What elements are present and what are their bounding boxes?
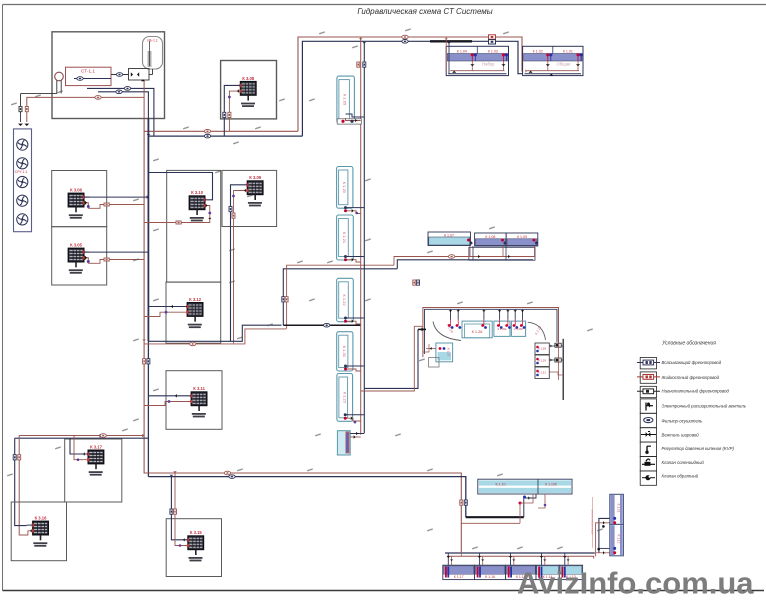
room 111 box <box>166 519 221 577</box>
ceiling group 1 <box>446 46 508 75</box>
evaporator К 3.12 <box>186 297 203 328</box>
vessel ИБ-1.1 <box>143 37 163 70</box>
fancoil К 1.07 <box>428 232 471 246</box>
svg-text:К 1.04: К 1.04 <box>457 50 467 54</box>
svg-text:К 1.10: К 1.10 <box>495 482 505 486</box>
svg-text:Нагнетательный фреонопровод: Нагнетательный фреонопровод <box>662 389 730 394</box>
wire К 1.05 out <box>337 114 364 124</box>
fancoil stack К 1.31 <box>535 367 549 379</box>
wire main A suction <box>148 135 302 137</box>
evaporator К 3.05 pipes <box>84 252 90 263</box>
filter-drier F1 <box>402 35 408 39</box>
svg-text:К 3.10: К 3.10 <box>191 190 204 195</box>
bottom units row <box>443 565 583 579</box>
wire group1 feed <box>445 37 451 74</box>
trunk suction <box>147 119 149 477</box>
fancoil К 1.26 <box>462 321 492 338</box>
svg-text:К 1.21: К 1.21 <box>342 232 347 244</box>
wire top main suction thick <box>430 40 472 42</box>
fancoil К 1.20 <box>337 167 353 209</box>
svg-text:Гидравлическая схема СТ Систем: Гидравлическая схема СТ Системы <box>357 7 492 16</box>
tank СТ-1.1 <box>66 67 112 85</box>
wire К 1.30 out <box>344 365 364 372</box>
wire valve box to vessel <box>149 69 153 75</box>
evaporator К 3.17 <box>87 444 104 475</box>
wire top main suction <box>302 41 523 136</box>
box near К 1.27 <box>429 358 440 367</box>
check valve КО 1 <box>555 343 561 347</box>
valve V1 <box>19 107 22 112</box>
svg-text:К 1.20: К 1.20 <box>342 182 347 194</box>
svg-text:КО: КО <box>556 359 559 362</box>
wire К 3.17 <box>70 436 88 462</box>
wire К 3.16 <box>23 525 33 535</box>
check valve КО 2 <box>555 358 561 362</box>
room 102 box <box>52 227 107 285</box>
trunk junction 2 <box>142 340 146 342</box>
wire К 3.12 branch <box>144 305 187 317</box>
evaporator К 3.09 <box>246 175 263 206</box>
evaporator К 3.06 <box>68 188 85 219</box>
svg-text:СРУ-1.1: СРУ-1.1 <box>15 170 28 174</box>
wire top main liquid <box>298 37 527 131</box>
wire main B <box>15 434 149 439</box>
wire К 3.05 branch <box>88 252 148 263</box>
svg-text:К 1.29: К 1.29 <box>538 359 546 363</box>
wire К 1.10 under <box>461 494 546 523</box>
svg-text:AvizInfo.com.ua: AvizInfo.com.ua <box>517 566 754 600</box>
machine room box <box>52 32 165 119</box>
fancoil К 1.21 <box>337 215 354 260</box>
wire К 1.22 out <box>344 317 364 325</box>
ceiling group 2 <box>523 46 583 75</box>
condenser СРУ-1.1 <box>14 129 32 232</box>
wire main C <box>144 471 466 552</box>
label К 1.24 diag <box>446 323 454 333</box>
svg-text:К 1.08: К 1.08 <box>485 235 495 239</box>
evaporator К 3.05 <box>68 243 85 274</box>
fancoil К 1.27 <box>436 343 453 362</box>
dots mid group <box>467 239 538 245</box>
fancoil К 1.08 <box>475 233 507 246</box>
svg-text:К 3.05: К 3.05 <box>70 243 83 248</box>
svg-text:административный: административный <box>590 509 594 535</box>
evaporator К 3.08 <box>239 76 256 107</box>
room 106 box <box>166 282 221 343</box>
svg-text:К 3.11: К 3.11 <box>193 386 205 391</box>
wire dept red <box>591 497 593 548</box>
svg-text:К 1.28: К 1.28 <box>538 347 546 351</box>
fancoil КТ 1.1 <box>337 431 350 455</box>
wire bottom dist <box>445 552 595 558</box>
room 103 box <box>167 170 221 282</box>
pipe size labels <box>7 28 603 549</box>
room 104 box <box>222 170 277 226</box>
filter-drier F4 <box>204 134 210 138</box>
svg-text:К 1.01: К 1.01 <box>563 50 573 54</box>
legend texts <box>661 360 747 479</box>
wire К 1.21 out <box>344 255 364 262</box>
wire main B left drop <box>13 436 27 536</box>
legend title and symbols <box>637 341 716 486</box>
room 105 box <box>221 61 277 119</box>
wire mid black 325 <box>283 323 360 327</box>
fancoil stack К 1.29 <box>535 355 549 367</box>
room 107 box <box>166 371 222 430</box>
valve V2 <box>25 107 28 112</box>
evaporator К 3.15 <box>187 530 204 561</box>
filter-drier F2 <box>402 40 408 44</box>
component R2 <box>489 40 496 44</box>
svg-text:К 1.12: К 1.12 <box>616 535 620 544</box>
curved room outline <box>423 308 563 401</box>
watermark AvizInfo.com.ua <box>517 566 754 600</box>
wire to condenser red <box>27 97 52 122</box>
wire К 3.06 branch <box>88 195 148 208</box>
svg-text:К 3.17: К 3.17 <box>90 444 103 449</box>
svg-text:К 3.06: К 3.06 <box>70 188 83 193</box>
trunk junction 1 <box>146 134 150 136</box>
evaporator К 3.11 <box>190 386 207 417</box>
svg-text:К 1.07: К 1.07 <box>444 233 454 237</box>
evaporator К 3.16 <box>32 516 49 547</box>
group2 feed tri <box>525 69 553 75</box>
svg-text:КО: КО <box>556 344 559 347</box>
wire pump out <box>21 93 57 95</box>
title <box>357 7 492 16</box>
svg-text:Жидкостный фреонопровод: Жидкостный фреонопровод <box>661 375 720 380</box>
svg-text:Набор: Набор <box>482 61 495 66</box>
trunk valve S <box>147 359 150 364</box>
svg-text:Фильтр-осушитель: Фильтр-осушитель <box>662 419 704 424</box>
fancoil tower К 1.11 <box>610 494 624 524</box>
wire К 1.27 <box>423 344 436 352</box>
svg-text:К 1.10б: К 1.10б <box>545 482 557 486</box>
svg-text:Всасывающий фреонопровод: Всасывающий фреонопровод <box>662 360 722 365</box>
svg-text:Вентиль шаровой: Вентиль шаровой <box>662 432 700 437</box>
svg-text:К 1.11: К 1.11 <box>616 504 620 513</box>
wire to condenser dark <box>20 94 22 122</box>
wire mid step <box>394 257 423 269</box>
svg-text:Регулятор давления кипения (KV: Регулятор давления кипения (KVP) <box>662 446 735 451</box>
svg-text:К 1.03: К 1.03 <box>488 50 498 54</box>
room 108 box <box>65 439 122 502</box>
wire riser mid <box>282 265 398 329</box>
wire inside tank <box>74 77 111 81</box>
svg-text:ИБ-1.1: ИБ-1.1 <box>147 39 158 43</box>
fancoil К 1.05 <box>337 76 355 123</box>
wire main A liquid <box>144 130 298 132</box>
fancoil К 1.26а <box>494 321 510 336</box>
wire suction A <box>87 87 154 137</box>
wire КТ 1.1 in <box>350 432 364 439</box>
svg-text:К 3.15: К 3.15 <box>190 530 203 535</box>
svg-text:К 1.23: К 1.23 <box>534 325 542 335</box>
wire К 1.20 out <box>344 206 364 214</box>
fancoil К 1.09 <box>506 233 538 246</box>
svg-text:К 1.31: К 1.31 <box>538 371 546 375</box>
fancoil К 1.30 <box>337 332 353 371</box>
wire stack feeds <box>536 344 563 381</box>
svg-text:К 1.02: К 1.02 <box>533 50 543 54</box>
svg-text:К 1.17: К 1.17 <box>454 575 464 579</box>
label К 1.23 diag <box>534 325 542 335</box>
svg-text:Клапан обратный: Клапан обратный <box>662 474 699 479</box>
fancoil К 1.26б <box>511 321 525 336</box>
trunk valve L <box>143 359 146 364</box>
pump P1 <box>55 72 64 93</box>
mid group under box <box>469 247 535 260</box>
main C valves <box>460 500 468 505</box>
svg-text:К 3.16: К 3.16 <box>35 516 48 521</box>
wire mid run <box>0 0 1 1</box>
svg-text:К 1.23: К 1.23 <box>342 392 347 404</box>
svg-text:К 3.12: К 3.12 <box>189 297 202 302</box>
svg-text:К 1.22: К 1.22 <box>342 294 347 306</box>
curved room drops <box>448 309 526 329</box>
trunk liquid <box>144 119 146 474</box>
svg-text:СТ-1.1: СТ-1.1 <box>81 69 95 74</box>
fancoil tower К 1.12 <box>610 524 624 555</box>
wire К 3.09 drop <box>229 185 247 343</box>
tower riser <box>596 518 610 556</box>
cassette riser <box>359 37 366 435</box>
wire suction B <box>98 90 148 119</box>
curved room arc left <box>433 322 461 341</box>
svg-text:Общая: Общая <box>557 61 572 66</box>
svg-text:К 1.09: К 1.09 <box>517 235 527 239</box>
room 109 box <box>11 502 66 561</box>
fancoil К 1.23 <box>337 374 353 422</box>
curved room entry <box>414 326 426 331</box>
wire branch 341 <box>144 325 286 346</box>
room 101 box <box>52 171 107 227</box>
riser valves <box>357 62 366 67</box>
label dept diag <box>590 509 594 535</box>
component R1 <box>489 35 496 39</box>
fancoil К 1.10 <box>478 479 572 494</box>
wire СТ-1.1 to valve box <box>111 73 129 77</box>
valve box <box>129 69 150 82</box>
svg-text:К 1.16: К 1.16 <box>485 575 495 579</box>
evaporator К 3.06 pipes <box>84 197 90 208</box>
svg-text:К 1.30: К 1.30 <box>342 346 347 358</box>
svg-text:К 1.27: К 1.27 <box>447 348 451 357</box>
svg-text:К 3.08: К 3.08 <box>242 76 255 81</box>
bottom unit drops <box>447 553 570 565</box>
svg-text:Условные обозначения: Условные обозначения <box>662 341 716 347</box>
svg-text:К 1.26: К 1.26 <box>472 330 483 334</box>
wire liquid <box>52 81 144 119</box>
curved room arc right <box>528 322 546 340</box>
wire mid group <box>421 246 536 260</box>
filter-drier F3 <box>204 130 210 134</box>
fancoil К 1.22 <box>337 278 354 321</box>
fancoil stack К 1.28 <box>535 343 549 355</box>
svg-text:Электронный расширительный вен: Электронный расширительный вентиль <box>662 404 747 409</box>
evaporator К 3.10 <box>189 190 206 221</box>
wire К 1.23 out <box>344 413 365 423</box>
wire К 3.08 drop <box>223 85 241 136</box>
arrow into condenser <box>18 124 29 126</box>
wire К 3.15 <box>170 473 188 547</box>
wire К 3.10 branch <box>144 173 212 225</box>
wire branch 389 <box>361 280 420 391</box>
svg-text:Клапан соленоидный: Клапан соленоидный <box>662 460 705 465</box>
svg-text:К 3.09: К 3.09 <box>249 175 262 180</box>
svg-text:К 1.05: К 1.05 <box>342 94 347 106</box>
wire К 3.11 branch <box>144 394 191 406</box>
